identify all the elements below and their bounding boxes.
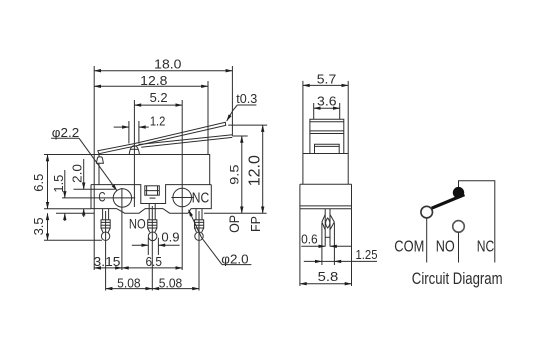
- NC hole horizontal centerline: [171, 197, 194, 199]
- svg-text:φ2.2: φ2.2: [52, 125, 79, 140]
- dimension 3.15: [94, 267, 122, 269]
- dimension 1.2: [114, 126, 149, 128]
- svg-text:5.08: 5.08: [159, 276, 183, 291]
- lever blade pressed position: [139, 135, 233, 148]
- COM terminal circle: [421, 206, 433, 218]
- svg-text:NC: NC: [192, 190, 209, 206]
- mounting hole NC side (phi 2.0): [173, 188, 192, 207]
- ref lever tip free position: [228, 124, 267, 126]
- svg-text:t0.3: t0.3: [236, 91, 257, 106]
- wire NC top: [459, 181, 495, 263]
- switch lever COM-NC: [432, 195, 465, 209]
- svg-text:6.5: 6.5: [31, 174, 46, 192]
- svg-text:NO: NO: [129, 216, 146, 231]
- NO contact block: [145, 186, 160, 195]
- dimension 9.5: [241, 136, 243, 213]
- svg-text:12.8: 12.8: [140, 73, 167, 88]
- ref lever tip pressed position: [232, 135, 247, 137]
- dimension 6.5 left: [47, 155, 49, 209]
- svg-text:Circuit Diagram: Circuit Diagram: [412, 270, 503, 288]
- svg-text:6.5: 6.5: [145, 254, 162, 269]
- extension line left (18.0/12.8/3.15): [93, 66, 95, 270]
- wire COM: [426, 218, 428, 262]
- svg-text:OP: OP: [226, 215, 242, 233]
- svg-text:5.08: 5.08: [117, 276, 141, 291]
- dimension 12.8: [94, 85, 208, 87]
- svg-text:3.5: 3.5: [31, 217, 46, 235]
- plunger foot: [315, 144, 340, 153]
- terminal pin NC: [195, 209, 204, 240]
- plunger outer: [310, 119, 344, 153]
- side base: [300, 184, 352, 209]
- plunger collar lines: [310, 122, 344, 134]
- center dash middle pin: [150, 197, 156, 199]
- extension lines 5.8: [300, 209, 352, 286]
- terminal label NO: [129, 216, 146, 231]
- ref C hole top: [74, 188, 116, 190]
- extension line C hole center vertical: [121, 188, 123, 270]
- svg-text:2.0: 2.0: [70, 164, 85, 183]
- ref pin tip left: [44, 239, 102, 241]
- label FP: [248, 216, 263, 232]
- svg-text:18.0: 18.0: [154, 56, 181, 71]
- label NO circuit: [436, 239, 455, 256]
- ref seating plane left: [56, 212, 94, 214]
- ref base bottom left: [44, 208, 91, 210]
- svg-text:9.5: 9.5: [228, 164, 242, 185]
- svg-text:3.15: 3.15: [94, 254, 121, 269]
- svg-text:5.7: 5.7: [317, 71, 337, 86]
- junction dot: [453, 187, 464, 198]
- dimension 0.9: [132, 238, 180, 255]
- svg-text:FP: FP: [248, 216, 263, 232]
- svg-text:0.9: 0.9: [161, 230, 179, 245]
- dimension 5.2: [134, 104, 182, 106]
- extension line right 18.0: [231, 66, 233, 136]
- dimension 1.5: [64, 170, 66, 221]
- dimension 18.0: [94, 70, 232, 72]
- svg-text:3.6: 3.6: [317, 94, 337, 109]
- svg-text:1.25: 1.25: [356, 247, 378, 262]
- label t0.3 with leader to lever tip: [227, 105, 257, 121]
- dimension 6.5 bottom: [122, 267, 182, 269]
- side upper body edges: [303, 154, 348, 185]
- terminal label NC: [192, 190, 209, 206]
- dimension 5.08 right: [152, 288, 199, 290]
- svg-text:5.2: 5.2: [150, 90, 168, 105]
- mounting hole C (phi 2.2): [113, 189, 131, 207]
- svg-text:C: C: [98, 189, 105, 204]
- dimension 5.7: [303, 84, 348, 86]
- extension lines 5.7: [303, 81, 348, 154]
- pin centerline extensions: [106, 206, 199, 291]
- switch upper body: [99, 155, 210, 185]
- label phi 2.2 with leader to hole C: [51, 138, 117, 190]
- side terminal pin: [322, 209, 334, 247]
- terminal label C: [98, 189, 105, 204]
- svg-text:COM: COM: [394, 239, 424, 256]
- dimension 5.08 left: [106, 288, 153, 290]
- base outline: [91, 185, 211, 214]
- caption Circuit Diagram: [412, 270, 503, 288]
- extension lines 1.2: [129, 121, 139, 144]
- svg-text:5.8: 5.8: [318, 269, 339, 284]
- NO terminal circle: [453, 221, 465, 233]
- ref C hole center: [62, 197, 135, 199]
- label COM: [394, 239, 424, 256]
- svg-text:12.0: 12.0: [246, 155, 263, 186]
- side body top: [303, 153, 348, 155]
- extension line 5.2 right / 6.5 right: [181, 100, 183, 270]
- dimension 5.8: [300, 283, 352, 285]
- terminal pin C: [101, 209, 110, 240]
- extension line 5.2 left / dome centerline: [133, 100, 135, 207]
- svg-text:NO: NO: [436, 239, 455, 256]
- label phi 2.0 with leader: [189, 210, 252, 265]
- svg-text:0.6: 0.6: [301, 232, 318, 247]
- ref seating plane right: [204, 212, 267, 214]
- extension line right 12.8: [207, 81, 209, 155]
- actuator dome: [129, 146, 139, 155]
- dimension 3.6: [314, 107, 340, 109]
- dimension 3.5: [47, 213, 49, 240]
- svg-text:1.5: 1.5: [51, 175, 66, 193]
- dimension 1.25: [304, 260, 377, 262]
- label OP: [226, 215, 242, 233]
- dimension 12.0: [262, 125, 264, 213]
- lever blade free position: [98, 122, 226, 153]
- extension lines pin bulge 1.25: [322, 223, 335, 265]
- svg-text:φ2.0: φ2.0: [221, 251, 248, 266]
- base top step line with U notch around NO contact: [91, 185, 211, 204]
- lever pivot arch: [96, 157, 103, 163]
- svg-text:NC: NC: [477, 239, 495, 256]
- dimension 0.6: [301, 245, 352, 247]
- extension lines 3.6: [314, 103, 340, 119]
- wire NO: [458, 233, 460, 263]
- terminal pin NO: [148, 204, 157, 241]
- label NC circuit: [477, 239, 495, 256]
- body top reference line extending left: [44, 154, 99, 156]
- svg-text:1.2: 1.2: [150, 113, 166, 128]
- dimension 2.0: [83, 159, 85, 217]
